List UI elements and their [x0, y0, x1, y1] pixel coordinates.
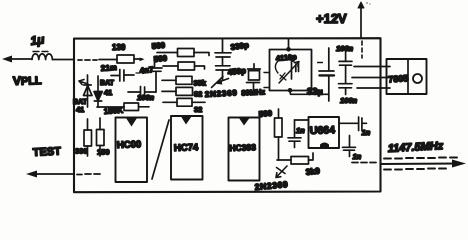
capacitor 100n lower right: [339, 84, 353, 95]
transistor Q1 arrow: [212, 77, 229, 88]
wire R2 right: [195, 66, 205, 69]
capacitor 22n: [111, 70, 145, 82]
main shield box: [74, 38, 381, 192]
svg-text:U664: U664: [310, 124, 336, 137]
svg-text:1μ: 1μ: [29, 32, 45, 48]
transistor Q2: [276, 166, 287, 178]
resistor 35k: [176, 76, 192, 84]
node osc top dot: [286, 47, 291, 52]
resistor 150: [97, 130, 105, 146]
svg-text:33μ: 33μ: [307, 87, 323, 98]
svg-text:100n: 100n: [137, 93, 155, 102]
svg-text:560: 560: [258, 109, 273, 119]
svg-text:150: 150: [97, 148, 110, 157]
wire slash divider: [152, 120, 169, 179]
wire VPLL output line: [7, 58, 32, 60]
capacitor 100n: [128, 87, 156, 98]
diode D2 BAT41: [94, 76, 102, 107]
wire osc bottom to 33u: [290, 91, 329, 94]
resistor 330: [84, 130, 92, 146]
resistor 560 vertical: [275, 109, 283, 160]
wire R1 left: [157, 52, 178, 54]
svg-text:TEST: TEST: [33, 146, 62, 159]
IC U4 U664: [309, 117, 340, 148]
svg-text:4n7: 4n7: [139, 65, 154, 75]
wire R3 left: [162, 79, 176, 81]
wire TEST dashed inside: [77, 173, 100, 176]
svg-text:130: 130: [112, 43, 126, 52]
wire R150K right: [139, 106, 150, 108]
wire coax lower dashes: [384, 169, 446, 170]
capacitor trimmer inside osc: [275, 59, 299, 83]
svg-text:HC74: HC74: [174, 142, 199, 154]
wire between caps: [222, 57, 224, 66]
wire TEST line: [31, 173, 74, 175]
inductor L1 core dashes: [33, 51, 48, 53]
svg-text:450p: 450p: [227, 66, 246, 77]
svg-text:21m: 21m: [101, 63, 118, 73]
svg-text:32: 32: [194, 105, 202, 114]
inductor L1: [32, 54, 52, 60]
capacitor 1n output: [343, 136, 356, 157]
wire R5 right: [192, 101, 205, 103]
wire coax upper dashes: [384, 158, 457, 159]
resistor 560 b: [178, 62, 195, 70]
capacitor 33u: [318, 48, 334, 101]
wire R130 right: [134, 58, 142, 60]
node +12V arrow tick: [358, 2, 364, 8]
svg-text:HC00: HC00: [117, 139, 142, 151]
node HC393 pin1 notch: [239, 118, 250, 126]
svg-text:+12V: +12V: [316, 11, 347, 26]
svg-text:41: 41: [76, 105, 84, 114]
IC U1 HC00: [116, 118, 148, 183]
wire R5 left: [163, 101, 177, 103]
node arrow at diodes: [79, 80, 88, 85]
svg-text:89MHz: 89MHz: [241, 87, 265, 97]
svg-text:HC393: HC393: [229, 142, 256, 153]
wire 3k9 left: [277, 159, 291, 161]
wire R150 top: [99, 118, 101, 130]
resistor 32: [177, 98, 192, 106]
IC U3 HC393: [229, 118, 260, 181]
svg-text:35k: 35k: [194, 79, 207, 88]
wire regulator gnd: [357, 87, 390, 89]
node U664 notch: [320, 143, 329, 148]
node HC74 pin1 notch: [181, 117, 192, 125]
wire 3k9 right: [309, 153, 314, 160]
wire R150 bottom: [99, 146, 101, 157]
resistor 130: [117, 55, 134, 63]
wire 330p top: [222, 39, 224, 53]
capacitor 4n7: [150, 59, 162, 93]
svg-text:330: 330: [75, 147, 88, 156]
wire R330 bottom: [87, 146, 89, 156]
svg-text:560: 560: [153, 54, 168, 64]
svg-text:100n: 100n: [340, 96, 358, 105]
svg-text:BAT: BAT: [100, 80, 115, 87]
svg-text:150K: 150K: [104, 106, 124, 116]
wire regulator input: [354, 66, 390, 68]
svg-text:4110p: 4110p: [275, 52, 297, 63]
svg-text:82: 82: [194, 90, 202, 99]
capacitor 330p: [215, 53, 231, 57]
wire +12V feed vertical: [360, 5, 362, 38]
svg-text:VPLL: VPLL: [13, 73, 43, 88]
node TEST arrowhead: [26, 171, 37, 178]
svg-text:2N2369: 2N2369: [205, 88, 238, 99]
svg-text:330p: 330p: [230, 41, 249, 52]
wire osc top feed: [288, 39, 290, 51]
node osc bottom dot: [288, 88, 293, 93]
wire dashed input segment: [78, 59, 97, 61]
svg-text:1n: 1n: [362, 128, 371, 137]
capacitor 1n at U664 left: [288, 120, 309, 148]
resistor 560 a: [178, 49, 195, 57]
wire R2 left: [163, 65, 178, 67]
svg-text:3k9: 3k9: [305, 166, 320, 177]
svg-text:7805: 7805: [388, 73, 409, 84]
wire R1 right: [194, 53, 209, 56]
svg-text:1147.5MHz: 1147.5MHz: [388, 140, 444, 155]
diode D1 BAT41: [84, 75, 93, 107]
node 7805 mounting hole: [413, 74, 422, 83]
svg-text:560: 560: [151, 41, 166, 51]
IC U2 HC74: [171, 116, 203, 180]
resistor 82: [176, 87, 193, 95]
capacitor 1n at U664 right: [339, 117, 367, 131]
wire coax center line: [381, 163, 459, 166]
node coax arrowhead: [452, 160, 466, 168]
node VPLL arrowhead: [2, 56, 12, 63]
wire input to R130: [99, 59, 117, 61]
wire diode node to R150K: [97, 106, 124, 108]
svg-text:1n: 1n: [296, 126, 305, 135]
svg-text:2N2369: 2N2369: [254, 179, 288, 192]
crystal X1 89MHz: [247, 64, 270, 90]
wire R4 left: [162, 90, 176, 92]
wire R330 top: [87, 119, 89, 130]
node HC00 pin1 notch: [126, 118, 137, 127]
resistor 3k9: [291, 157, 309, 165]
regulator U5 7805 box: [387, 59, 427, 94]
resistor 150K: [124, 103, 139, 111]
wire regulator mid: [352, 77, 390, 79]
wire inductor to box: [52, 59, 74, 61]
wire 450p bottom: [222, 70, 224, 80]
wire dashed to output: [352, 162, 376, 164]
capacitor 450p: [216, 66, 231, 70]
capacitor 100n top right: [339, 52, 352, 84]
wire +12V dashed inside: [361, 41, 363, 58]
svg-text:1n: 1n: [353, 152, 362, 161]
oscillator module box: [270, 50, 312, 91]
svg-text:41: 41: [104, 88, 112, 97]
node arrow after R130: [140, 58, 145, 62]
